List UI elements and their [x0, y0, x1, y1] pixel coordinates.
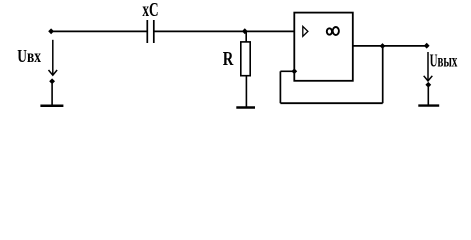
wire: output rail: [353, 45, 427, 47]
op-amp gain symbol infinity: [327, 27, 339, 35]
node: output ground node: [425, 82, 431, 88]
node: output feedback tap junction: [380, 43, 386, 49]
node: resistor top junction: [242, 28, 248, 34]
svg-text:R: R: [223, 49, 234, 70]
node: output rail end junction: [424, 43, 430, 49]
voltage arrow Uвых: [424, 52, 433, 81]
capacitor xC: [147, 20, 154, 43]
wire: resistor top lead: [245, 31, 247, 42]
wire: capacitor to op-amp input rail: [154, 30, 294, 32]
node: input node junction: [48, 28, 54, 34]
wire: feedback right riser: [382, 46, 384, 103]
wire: input rail from input node to capacitor: [51, 30, 147, 32]
wire: feedback bottom rail: [280, 102, 382, 104]
node: inverting input junction: [291, 68, 297, 74]
node: input ground node: [49, 78, 55, 84]
wire: inverting input segment: [280, 70, 294, 72]
wire: resistor bottom lead: [245, 76, 247, 108]
op-amp input marker triangle: [303, 26, 308, 36]
ground (input): [40, 105, 63, 108]
wire: input node to ground: [51, 84, 53, 106]
resistor R: [241, 42, 250, 76]
svg-text:Uвх: Uвх: [17, 46, 41, 66]
voltage arrow Uвх: [49, 40, 58, 75]
svg-text:Uвых: Uвых: [430, 51, 458, 71]
wire: output node to ground: [427, 87, 429, 105]
ground (resistor): [236, 106, 255, 108]
op-amp U1 body: [294, 13, 353, 81]
ground (output): [418, 104, 439, 106]
wire: feedback left riser: [279, 71, 281, 103]
svg-text:xC: xC: [142, 0, 158, 21]
